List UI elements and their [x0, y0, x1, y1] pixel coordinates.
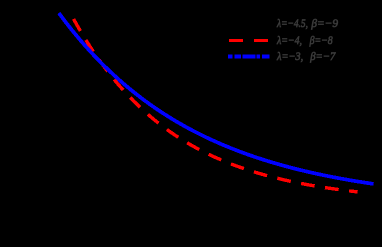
svg-text:β=−9: β=−9 — [310, 16, 338, 30]
svg-text:λ=−4,: λ=−4, — [276, 33, 302, 47]
curve lambda=-3, beta=-7 (blue, drawn on top; black curve lambda=-4.5 beta=-9 invisible on black bg) — [59, 13, 374, 184]
legend sample: red dashed line — [229, 39, 268, 42]
svg-text:β=−7: β=−7 — [309, 49, 336, 63]
svg-text:λ=−4.5,: λ=−4.5, — [276, 16, 308, 30]
curve lambda=-4, beta=-8 (red dashed) — [70, 12, 358, 192]
legend sample: blue dotted line (five chunks) — [228, 54, 269, 58]
svg-text:λ=−3,: λ=−3, — [276, 49, 303, 63]
svg-text:β=−8: β=−8 — [309, 33, 333, 47]
